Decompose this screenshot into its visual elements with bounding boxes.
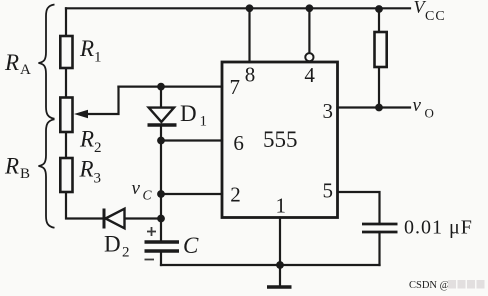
svg-text:R: R (79, 36, 94, 61)
svg-text:B: B (20, 166, 30, 182)
svg-text:R: R (4, 50, 19, 75)
brace RB (39, 119, 55, 228)
svg-text:D: D (180, 101, 197, 126)
svg-text:0.01 μF: 0.01 μF (404, 217, 473, 239)
wire ground stub (279, 265, 281, 286)
resistor R4 body (output pull, right) (375, 32, 387, 67)
svg-text:v: v (413, 95, 422, 116)
capacitor C polarity minus (145, 259, 155, 261)
svg-text:1: 1 (200, 114, 208, 130)
node: D2 junction (157, 215, 165, 223)
svg-text:3: 3 (322, 99, 333, 123)
wire node vC vertical (160, 141, 162, 243)
resistor R1 body (60, 36, 72, 68)
wire D1 top (160, 87, 162, 107)
wire right resistor top (378, 8, 380, 32)
wire pin 1 to rail (279, 218, 281, 266)
wire pin 8 from rail (248, 8, 250, 62)
resistor R3 body (60, 158, 72, 192)
svg-text:8: 8 (245, 63, 256, 87)
brace RA (39, 5, 55, 119)
capacitor C polarity plus (147, 227, 156, 236)
node vC: pin2 (157, 190, 165, 198)
wire C bottom to ground rail (160, 251, 162, 265)
svg-text:CSDN @: CSDN @ (409, 280, 450, 291)
wire R1 to R2 (65, 68, 67, 98)
svg-text:4: 4 (304, 63, 315, 87)
svg-text:2: 2 (230, 183, 241, 207)
wire D2 to node vC column (125, 217, 161, 219)
svg-text:v: v (132, 178, 141, 199)
node: rail/R4 (375, 5, 383, 13)
diode D1 triangle (cathode down) (149, 108, 174, 122)
capacitor C plates (electrolytic) (145, 240, 180, 244)
wire left column: rail to R1 (65, 8, 67, 36)
svg-text:1: 1 (275, 194, 286, 218)
wire pin 3 to vO (338, 106, 411, 108)
resistor R2 wiper arrowhead (74, 110, 88, 119)
diode D2 triangle (cathode left) (106, 209, 125, 229)
node: rail/pin4 (306, 4, 314, 12)
svg-text:D: D (104, 232, 121, 257)
svg-text:555: 555 (263, 127, 298, 152)
svg-text:C: C (143, 188, 153, 203)
svg-text:6: 6 (233, 131, 244, 155)
svg-text:1: 1 (94, 50, 102, 66)
svg-text:R: R (79, 127, 94, 152)
svg-text:5: 5 (322, 179, 333, 203)
wire right resistor bottom to pin3 line (378, 67, 380, 108)
svg-text:2: 2 (94, 140, 102, 156)
IC U1 555 box (222, 62, 338, 218)
node: pin1/ground (276, 261, 284, 269)
wire R3 to D2 (66, 192, 103, 219)
node: pin3/vO (375, 104, 383, 112)
svg-text:7: 7 (230, 75, 241, 99)
svg-text:R: R (79, 157, 94, 182)
node: pin7/D1 (157, 83, 165, 91)
wire top rail Vcc (66, 7, 410, 9)
node: rail/pin8 (246, 4, 254, 12)
svg-text:3: 3 (94, 171, 102, 187)
wire pin 5 (338, 192, 380, 224)
capacitor C2 0.01uF plates (362, 223, 398, 226)
wire R2 to R3 (65, 132, 67, 158)
svg-text:R: R (4, 154, 19, 179)
wire pin 6 (161, 139, 222, 141)
svg-text:CC: CC (425, 9, 446, 24)
node: D1/pin6 (157, 137, 165, 145)
wire R2 wiper to pin 7 (88, 87, 119, 114)
diode D1 cathode bar (148, 123, 177, 126)
wire cap 0.01uF bottom (378, 232, 380, 265)
wire pin 4 from rail (308, 8, 310, 53)
ground (267, 285, 292, 288)
wire pin 7 (119, 85, 223, 87)
wire bottom rail (161, 264, 380, 266)
wire pin 2 (161, 193, 222, 195)
svg-text:O: O (425, 106, 434, 121)
svg-text:2: 2 (122, 245, 130, 261)
resistor R2 body (potentiometer) (60, 98, 72, 133)
pin 4 reset bubble (305, 53, 313, 61)
svg-text:A: A (20, 62, 31, 78)
wire D1 bottom to pin6 node (160, 126, 162, 141)
svg-text:C: C (183, 233, 199, 258)
diode D2 cathode bar (103, 209, 106, 229)
